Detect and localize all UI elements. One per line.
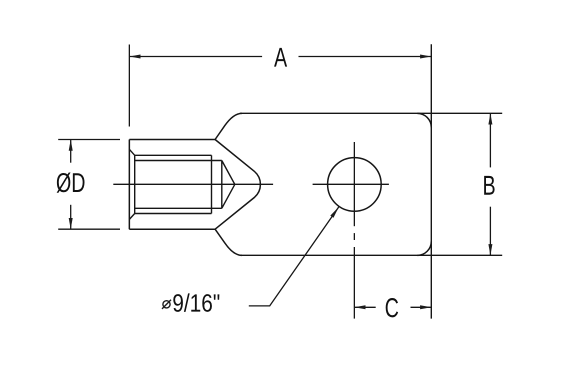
arrowhead B bottom <box>488 244 492 255</box>
leader line to hole <box>249 207 339 306</box>
dimension C line left part <box>354 306 375 308</box>
plate corner arc bottom-right <box>417 241 431 255</box>
arrowhead leader <box>330 207 339 218</box>
arrowhead A right <box>420 55 431 59</box>
dimension B line upper part <box>489 113 491 167</box>
dimension A left extension line <box>128 45 130 127</box>
stud thread minor diameter top <box>135 154 212 156</box>
hole centerline vertical (upper segment) <box>353 142 355 226</box>
stud outer profile <box>129 140 215 230</box>
plate top edge and B top extension line <box>240 112 503 114</box>
arrowhead C right <box>420 305 431 309</box>
arrowhead D top <box>69 140 73 151</box>
stud pilot line bottom <box>135 207 222 209</box>
arrowhead C left <box>354 305 365 309</box>
dimension B line lower part <box>489 207 491 256</box>
hole centerline horizontal <box>313 183 389 185</box>
label diameter D <box>57 172 85 192</box>
dimension A line right part <box>299 56 432 58</box>
stud cone base vertical <box>221 161 223 209</box>
arrowhead A left <box>129 55 140 59</box>
dimension C line right part <box>411 306 432 308</box>
hole circle <box>328 158 382 212</box>
plate corner arc top-right <box>417 113 431 127</box>
diameter symbol of 9/16 label <box>162 300 171 309</box>
label C <box>386 298 398 317</box>
hole centerline vertical (short dash) <box>353 233 355 240</box>
plate bottom edge and B bottom extension line <box>240 254 503 256</box>
stud thread chamfer bottom-left <box>129 214 134 220</box>
plate V-notch pocket <box>215 140 260 230</box>
dimension D bottom extension line <box>58 228 120 230</box>
plate upper taper with rounded corner <box>215 113 242 139</box>
arrowhead D bottom <box>69 218 73 229</box>
stud thread end vertical <box>211 155 213 213</box>
dimension A line left part <box>129 56 262 58</box>
stud cone point <box>222 161 235 209</box>
stud thread inner vertical left <box>134 155 136 213</box>
label 9/16 inch <box>173 293 219 311</box>
dimension D line upper part <box>70 140 72 163</box>
label B <box>484 176 494 195</box>
stud thread minor diameter bottom <box>135 213 212 215</box>
hole centerline vertical (lower segment / C extension line) <box>353 247 355 319</box>
plate right edge with A and C extension line <box>430 44 432 318</box>
part centerline horizontal <box>113 183 273 185</box>
label A <box>274 48 287 67</box>
stud thread chamfer top-left <box>129 149 134 155</box>
stud pilot line top <box>135 160 222 162</box>
dimension D line lower part <box>70 205 72 229</box>
plate lower taper with rounded corner <box>215 229 242 255</box>
arrowhead B top <box>488 113 492 124</box>
dimension D top extension line <box>58 139 120 141</box>
